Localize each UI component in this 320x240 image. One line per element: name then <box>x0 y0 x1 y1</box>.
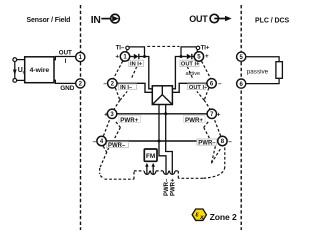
FM box <box>144 149 157 161</box>
module terminal 4 <box>97 136 106 145</box>
svg-text:OUT: OUT <box>189 14 208 24</box>
connector contact 4 <box>170 171 175 174</box>
module terminal 7 <box>207 109 216 118</box>
svg-text:x: x <box>199 214 204 221</box>
svg-text:PLC / DCS: PLC / DCS <box>255 17 290 24</box>
svg-text:PWR–: PWR– <box>164 178 170 196</box>
svg-text:active: active <box>186 71 201 77</box>
svg-text:4-wire: 4-wire <box>30 67 50 74</box>
junction dot PWR+ <box>164 112 167 115</box>
TI- bypass loop <box>129 47 144 57</box>
label box IN I+ <box>129 60 144 66</box>
svg-text:IN I+: IN I+ <box>130 62 143 68</box>
arrow Us down <box>13 70 17 76</box>
svg-text:PWR+: PWR+ <box>171 178 177 196</box>
svg-text:Sensor / Field: Sensor / Field <box>27 17 71 24</box>
TI+ bypass loop <box>181 47 196 57</box>
wire power leg left (PWR-) <box>159 105 166 175</box>
module terminal 8 <box>218 136 227 145</box>
svg-text:TI–: TI– <box>116 46 125 52</box>
svg-text:PWR+: PWR+ <box>185 117 203 124</box>
dashed TI test line <box>147 45 179 47</box>
svg-text:I: I <box>65 58 67 65</box>
label box PWR- right <box>197 139 217 145</box>
wire GND from box to field terminal 2 <box>54 80 76 83</box>
svg-text:IN: IN <box>91 15 101 26</box>
svg-text:–: – <box>218 80 222 87</box>
module outline dashes right <box>178 50 225 178</box>
wire PLC top <box>246 57 279 62</box>
connector contact 1 <box>144 171 149 175</box>
svg-text:OUT I–: OUT I– <box>189 85 207 91</box>
module terminal 3 <box>107 109 116 118</box>
module terminal 6 <box>207 79 216 88</box>
svg-text:OUT I+: OUT I+ <box>181 62 200 68</box>
passive load resistor <box>276 62 283 79</box>
svg-text:TI+: TI+ <box>201 46 210 52</box>
wire Us vertical <box>14 62 16 79</box>
TI- test socket <box>126 46 130 50</box>
supply terminal circle upper <box>13 58 17 62</box>
wire OUT I- from amplifier to terminal 6 <box>172 83 207 92</box>
svg-text:IN I–: IN I– <box>120 85 132 91</box>
module bottom recess dashed line <box>134 170 178 172</box>
TI+ test socket <box>196 46 200 50</box>
wire PLC bottom <box>246 78 279 83</box>
svg-text:+: + <box>217 111 221 118</box>
wire power leg right (PWR+) <box>166 105 173 175</box>
svg-text:–: – <box>93 138 97 145</box>
wire IN I+ to amplifier <box>139 57 153 89</box>
junction dot after diode D1 <box>143 55 146 58</box>
svg-text:–: – <box>228 138 232 145</box>
connector contact 3 <box>163 171 168 175</box>
diode D2 <box>181 56 187 58</box>
wire OUT I from box to field terminal 1 <box>54 57 76 60</box>
module terminal 1 <box>120 52 129 61</box>
PLC terminal 6 <box>237 79 246 88</box>
label box PWR+ left <box>119 115 140 122</box>
svg-text:FM: FM <box>146 153 155 160</box>
connector contact 2 <box>151 171 156 175</box>
OUT arrow icon <box>210 14 232 22</box>
svg-text:PWR–: PWR– <box>198 141 216 147</box>
svg-text:GND: GND <box>60 85 75 92</box>
svg-text:PWR–: PWR– <box>108 143 126 149</box>
label box IN I- <box>119 84 137 89</box>
diode D1 <box>134 54 139 59</box>
PLC terminal 5 <box>237 52 246 61</box>
4-wire transmitter box <box>25 57 54 83</box>
svg-text:+: + <box>115 54 119 61</box>
junction dot PWR- <box>158 140 161 143</box>
module terminal 2 <box>108 79 117 88</box>
svg-text:OUT: OUT <box>59 50 72 57</box>
svg-text:Zone 2: Zone 2 <box>210 212 237 222</box>
FM supply wire right with arrow <box>152 166 154 174</box>
FM supply wire left with arrow <box>146 166 148 174</box>
wire IN I- from terminal 2 to amplifier <box>117 83 152 92</box>
wire supply bottom to 4-wire box <box>17 79 25 81</box>
svg-text:passive: passive <box>247 68 269 75</box>
supply terminal circle lower <box>13 79 17 83</box>
label box OUT I- <box>187 84 205 89</box>
label box PWR+ right <box>184 115 206 122</box>
label box OUT I+ <box>180 60 199 66</box>
wire supply top to 4-wire box <box>17 59 25 61</box>
svg-text:+: + <box>104 111 108 118</box>
module outline dashes left <box>100 50 137 179</box>
separator dashed line left <box>80 5 82 230</box>
svg-text:–: – <box>103 80 107 87</box>
field terminal 1 <box>76 52 85 61</box>
wire OUT I+ from amplifier <box>172 57 181 89</box>
IN arrow icon <box>101 14 119 23</box>
separator dashed line right <box>240 5 242 230</box>
PWR- bus <box>106 140 217 142</box>
junction dot before diode D2 <box>180 55 183 58</box>
module terminal 1 wire <box>130 56 134 58</box>
isolation amplifier <box>152 86 172 105</box>
svg-text:PWR+: PWR+ <box>120 117 138 124</box>
module terminal 5 <box>194 52 203 61</box>
Ex hexagon <box>192 209 206 220</box>
field terminal 2 <box>76 79 85 88</box>
PWR+ bus <box>117 113 207 115</box>
label box PWR- left <box>106 142 128 148</box>
svg-text:+: + <box>205 53 209 60</box>
